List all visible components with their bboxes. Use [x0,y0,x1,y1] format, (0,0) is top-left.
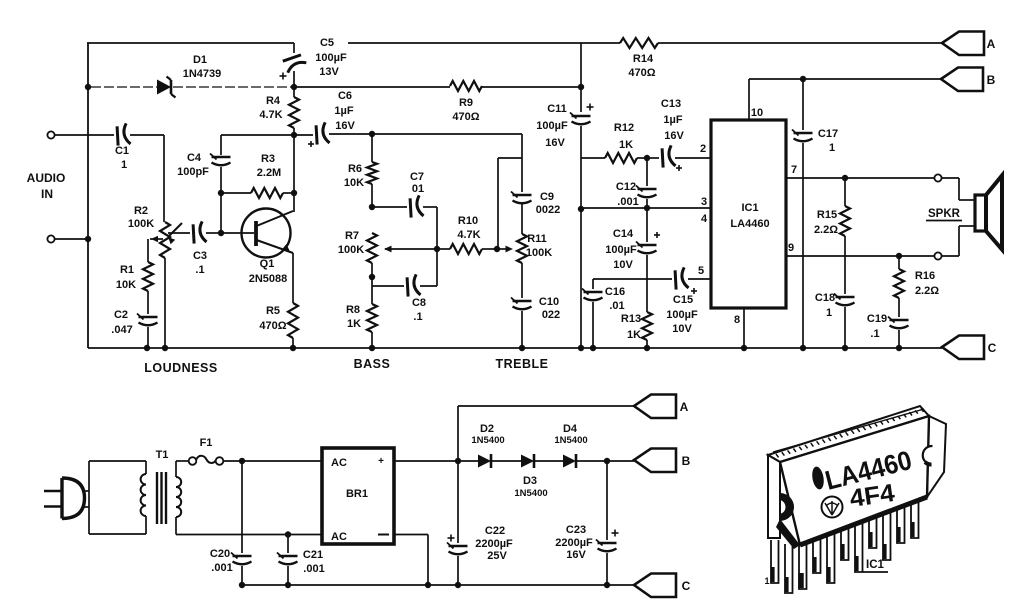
svg-text:C7: C7 [410,171,424,183]
capacitor C1 1 [114,123,131,146]
svg-text:C5: C5 [320,37,334,49]
svg-text:13V: 13V [319,66,339,78]
node junction C21 top [285,531,291,537]
svg-text:B: B [682,454,691,468]
svg-text:R3: R3 [261,153,275,165]
resistor R9 470ohm [294,86,450,88]
svg-text:+: + [378,456,384,467]
svg-text:C10: C10 [539,296,559,308]
svg-text:4: 4 [701,213,708,225]
svg-text:100µF: 100µF [605,244,637,256]
svg-text:R10: R10 [458,215,478,227]
node junction D1 left [85,84,91,90]
wire pin 9 output [786,255,934,257]
svg-text:F1: F1 [200,437,213,449]
diode D4 1N5400 [563,455,576,468]
resistor R10 4.7K [437,248,450,250]
node junction minus bottom [425,582,431,588]
potentiometer R2 100K loudness [160,222,170,258]
node junction R12/C13/C12 [644,155,650,161]
wire C8 branch [372,285,404,287]
resistor R14 470ohm [620,38,658,48]
capacitor C14 100uF 10V [646,208,648,242]
svg-text:470Ω: 470Ω [628,67,655,79]
node junction R7 bottom [369,274,375,280]
svg-text:.001: .001 [211,562,232,574]
svg-text:10V: 10V [672,323,692,335]
svg-text:C8: C8 [412,297,426,309]
svg-text:470Ω: 470Ω [259,320,286,332]
resistor R13 1K [642,312,652,340]
svg-text:1: 1 [121,159,127,171]
svg-text:C18: C18 [815,292,835,304]
capacitor C8 .1 [404,274,421,297]
svg-text:D1: D1 [193,54,207,66]
capacitor C4 100pF [220,135,222,155]
capacitor C16 .01 [592,279,594,289]
svg-text:1K: 1K [347,318,361,330]
svg-text:.001: .001 [303,563,324,575]
IC1 package left notch [780,493,794,521]
svg-text:R9: R9 [459,97,473,109]
wire fuse to bridge [223,460,322,462]
node junction plus / C22 / A [455,458,461,464]
svg-text:.1: .1 [195,264,204,276]
svg-text:25V: 25V [487,550,507,562]
capacitor C6 1uF 16V [294,134,313,136]
svg-text:100K: 100K [128,218,154,230]
svg-text:C20: C20 [210,548,230,560]
svg-text:4.7K: 4.7K [457,229,480,241]
svg-text:0022: 0022 [536,204,560,216]
capacitor C13 1uF 16V [647,157,659,159]
svg-text:5: 5 [698,265,704,277]
IC1 package top face [768,406,929,462]
node junction C11 line mid [578,206,584,212]
wire bridge plus output [394,460,478,462]
node junction C20 bottom [239,582,245,588]
wire pin 10 [748,79,750,120]
wire rail B [749,78,941,80]
wire rail A vertical [457,406,459,461]
svg-text:A: A [987,37,996,51]
IC1 package left face [768,455,780,538]
wire C13 to pin 2 [675,157,711,159]
node junction R6/R7/C7 [369,204,375,210]
connector B top [941,68,983,92]
svg-text:R6: R6 [348,163,362,175]
wire ground rail bottom [242,584,634,586]
node junction R10/R11 wiper [494,246,500,252]
wire C4 node down to base wire [220,193,222,233]
svg-text:16V: 16V [664,130,684,142]
svg-text:2200µF: 2200µF [475,538,513,550]
svg-text:C1: C1 [115,145,129,157]
node junction pot bottom [162,345,168,351]
connector A top [942,32,984,56]
wire treble feedback link [498,157,522,159]
wire D4 to connector B [576,460,634,462]
capacitor C23 2200uF 16V [606,461,608,540]
IC1 package right face [927,416,946,497]
wire C1 to pot [130,134,164,136]
node junction C20 top [239,458,245,464]
svg-text:C16: C16 [605,286,625,298]
svg-text:D4: D4 [563,423,578,435]
svg-text:1: 1 [826,307,832,319]
svg-text:1K: 1K [619,139,633,151]
svg-text:D3: D3 [523,475,537,487]
transistor Q1 2N5088 [242,209,291,258]
node junction C23 bottom [604,582,610,588]
wire D3 to D4 [534,460,563,462]
svg-text:100µF: 100µF [666,309,698,321]
svg-text:16V: 16V [545,137,565,149]
terminal speaker top [934,174,941,181]
node junction C23 top [604,458,610,464]
svg-text:3: 3 [701,196,707,208]
wire bass right vertical [436,207,438,286]
capacitor C11 100uF 16V [572,115,591,117]
svg-text:2200µF: 2200µF [555,537,593,549]
wire top supply rail right with R14 [348,42,620,44]
svg-text:R4: R4 [266,95,281,107]
node junction R15 top [842,175,848,181]
node junction C11 line bottom [578,345,584,351]
svg-text:100µF: 100µF [536,120,568,132]
svg-text:C14: C14 [613,228,634,240]
wire bridge minus output [394,534,428,536]
resistor R6 10K [371,134,373,162]
svg-text:SPKR: SPKR [928,208,961,220]
capacitor C3 .1 [190,221,207,244]
svg-text:R16: R16 [915,270,935,282]
svg-text:.001: .001 [617,196,638,208]
wire input top [55,134,114,136]
node junction bass top [369,131,375,137]
node junction R4/C6/C4 [291,132,297,138]
node junction input bottom [85,236,91,242]
wire supply branch vertical [580,43,582,112]
svg-text:R11: R11 [527,233,547,245]
wire R4 to node [293,128,295,135]
svg-text:R1: R1 [120,264,134,276]
capacitor C12 .001 [646,158,648,186]
svg-text:LA4460: LA4460 [730,218,769,230]
svg-text:R15: R15 [817,209,837,221]
svg-text:C: C [682,579,691,593]
svg-text:R7: R7 [345,230,359,242]
op-amp IC1 LA4460 box [711,120,786,308]
wire top supply rail left [87,42,294,44]
wire rail A horizontal [458,405,634,407]
wire left vertical bus [87,43,89,348]
svg-text:2.2M: 2.2M [257,167,281,179]
node junction R16 top [896,253,902,259]
node junction R3 left / base [218,190,224,196]
diode D2 1N5400 [478,455,491,468]
svg-text:1N5400: 1N5400 [514,488,547,499]
svg-text:100µF: 100µF [315,52,347,64]
diode D1 (zener 1N4739) [157,80,171,95]
wire wiper arrow R11 [497,248,508,250]
wire collector vertical [293,135,295,212]
svg-text:1N5400: 1N5400 [554,435,587,446]
capacitor C20 .001 [241,461,243,553]
svg-text:8: 8 [734,314,740,326]
svg-text:AC: AC [331,457,347,469]
terminal audio in top [47,131,54,138]
node junction C5/R4/D1/R9 [291,84,297,90]
resistor R16 2.2ohm [898,256,900,269]
svg-text:1K: 1K [627,329,641,341]
capacitor C19 .1 [890,319,909,321]
node junction C2 bottom [144,345,150,351]
svg-text:1µF: 1µF [334,105,353,117]
IC1 package front face [780,416,929,545]
resistor R8 1K [367,304,377,332]
speaker SPKR [975,195,986,231]
svg-text:C4: C4 [187,152,202,164]
capacitor C9 .0022 [513,194,532,196]
fuse F1 [176,460,189,462]
node junction C19 bottom [896,345,902,351]
svg-text:16V: 16V [566,549,586,561]
svg-text:1N5400: 1N5400 [471,435,504,446]
potentiometer R7 100K bass [367,233,377,263]
svg-text:10: 10 [751,107,763,119]
node junction bass link [434,246,440,252]
connector B bottom [634,449,676,473]
wire emitter to R5 [292,253,294,303]
terminal audio in bottom [47,235,54,242]
wire D1 cathode segment [173,86,291,88]
node junction R13 bottom [644,345,650,351]
svg-text:9: 9 [788,242,794,254]
svg-text:1N4739: 1N4739 [183,68,222,80]
diode D3 1N5400 [521,455,534,468]
svg-text:C9: C9 [540,191,554,203]
wire plug to transformer [89,460,146,462]
node junction C22 bottom [455,582,461,588]
wire bottom ground rail [88,347,942,349]
svg-text:BASS: BASS [354,357,391,371]
svg-text:7: 7 [791,164,797,176]
svg-text:R8: R8 [346,304,360,316]
svg-text:R12: R12 [614,122,634,134]
svg-text:01: 01 [412,183,424,195]
svg-text:C13: C13 [661,98,681,110]
svg-text:IN: IN [41,187,53,201]
svg-text:B: B [987,73,996,87]
capacitor C18 1 [836,296,855,298]
svg-text:.047: .047 [111,324,132,336]
capacitor C21 .001 [287,535,289,554]
svg-text:Q1: Q1 [260,258,275,270]
node junction R5 bottom [290,345,296,351]
IC1 package index blob [811,466,826,491]
capacitor C2 .047 [139,316,158,318]
wire pin 3 input [581,207,711,209]
node junction C17 bottom [800,345,806,351]
capacitor C17 1 [802,79,804,130]
capacitor C22 2200uF 25V [457,461,459,543]
svg-text:022: 022 [542,309,560,321]
potentiometer R11 100K treble [517,234,527,263]
wire node to C4 branch [221,134,294,136]
svg-text:R2: R2 [134,205,148,217]
svg-text:C21: C21 [303,549,323,561]
svg-text:1: 1 [764,576,769,586]
svg-text:R13: R13 [621,313,641,325]
svg-text:R14: R14 [633,53,654,65]
svg-text:C6: C6 [338,90,352,102]
svg-text:C22: C22 [485,525,505,537]
wire D2 to D3 [491,460,521,462]
svg-text:C19: C19 [867,313,887,325]
wire transformer bottom to bridge [176,534,322,536]
svg-text:C23: C23 [566,524,586,536]
svg-text:.1: .1 [413,311,422,323]
svg-text:TREBLE: TREBLE [496,357,549,371]
connector C bottom [634,574,676,598]
ac plug [44,490,62,493]
svg-text:C12: C12 [616,181,636,193]
svg-text:100K: 100K [338,244,364,256]
node junction C18 bottom [842,345,848,351]
node junction C10 bottom [519,345,525,351]
capacitor C10 .022 [513,300,532,302]
svg-text:C11: C11 [547,103,567,115]
svg-text:2.2Ω: 2.2Ω [814,224,838,236]
svg-text:R5: R5 [266,305,280,317]
svg-text:16V: 16V [335,120,355,132]
svg-text:C3: C3 [193,250,207,262]
svg-text:D2: D2 [480,423,494,435]
node junction base [218,230,224,236]
capacitor C7 .01 [407,195,424,218]
svg-text:10K: 10K [344,177,364,189]
wire speaker top lead [942,177,959,179]
terminal speaker bottom [934,252,941,259]
svg-text:10K: 10K [116,279,136,291]
svg-text:470Ω: 470Ω [452,111,479,123]
node junction R9 right [578,84,584,90]
node junction C21 bottom [285,582,291,588]
svg-text:.1: .1 [870,328,879,340]
connector C top section [942,336,984,360]
wire wiper down [147,239,149,262]
wire C7 branch [372,206,407,208]
svg-text:LOUDNESS: LOUDNESS [144,361,217,375]
svg-text:10V: 10V [613,259,633,271]
resistor R15 2.2ohm [844,178,846,206]
svg-text:A: A [680,400,689,414]
svg-text:100K: 100K [526,247,552,259]
IC1 package bottom shadow edges [800,497,927,545]
IC1 package logo [822,497,843,518]
svg-text:.01: .01 [609,300,624,312]
svg-text:2.2Ω: 2.2Ω [915,285,939,297]
wire R14 to connector A [658,42,942,44]
node junction R8 bottom [369,345,375,351]
wire pin 5 branch [593,278,672,280]
svg-text:C: C [988,341,997,355]
wire speaker bottom lead [942,255,959,257]
svg-text:4.7K: 4.7K [259,109,282,121]
wire pin 8 ground [743,308,745,348]
wire D1 anode segment [91,86,157,88]
resistor R5 470ohm [288,303,298,338]
IC1 package drawing LA4460 [764,406,946,593]
node junction C12 bottom [644,205,650,211]
svg-text:100pF: 100pF [177,166,209,178]
IC1 package right notch [923,446,933,465]
svg-text:T1: T1 [156,449,169,461]
resistor R12 1K [581,157,605,159]
svg-text:2N5088: 2N5088 [249,273,288,285]
wire input bottom [55,238,88,240]
svg-text:AUDIO: AUDIO [27,171,66,185]
svg-text:BR1: BR1 [346,488,368,500]
svg-text:IC1: IC1 [866,559,885,571]
svg-text:C17: C17 [818,128,838,140]
node junction R3 right / collector [291,190,297,196]
svg-text:AC: AC [331,531,347,543]
svg-text:1: 1 [829,142,835,154]
wire pot bottom [164,258,166,348]
svg-text:C2: C2 [114,309,128,321]
svg-text:2: 2 [700,143,706,155]
bridge rectifier BR1 box [322,448,394,544]
svg-text:C15: C15 [673,294,693,306]
connector A bottom [634,395,676,419]
capacitor C15 100uF 10V [672,267,689,290]
resistor R4 4.7K [289,97,299,128]
svg-text:1µF: 1µF [663,114,682,126]
resistor R3 2.2M [221,192,251,194]
wire pin 7 output [786,177,934,179]
node junction C16 bottom [590,345,596,351]
node junction pin8 bottom [741,345,747,351]
capacitor C5 100uF 13V [293,43,295,53]
resistor R1 10K [143,262,153,291]
wire base C3 [168,232,190,234]
node junction C17 top [800,76,806,82]
svg-text:IC1: IC1 [741,202,758,214]
wire C6 to treble corner [329,133,522,135]
